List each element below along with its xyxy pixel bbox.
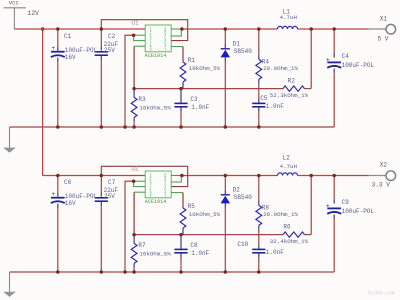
svg-text:4.7uH: 4.7uH bbox=[280, 14, 298, 21]
svg-text:+: + bbox=[326, 57, 330, 64]
svg-text:25V: 25V bbox=[104, 193, 115, 200]
svg-text:L2: L2 bbox=[283, 155, 291, 162]
svg-text:100uF-POL: 100uF-POL bbox=[342, 208, 375, 215]
svg-text:+: + bbox=[326, 203, 330, 210]
svg-text:R2: R2 bbox=[288, 78, 296, 85]
svg-text:20.0Ohm_1%: 20.0Ohm_1% bbox=[263, 65, 298, 72]
svg-text:C7: C7 bbox=[108, 179, 116, 186]
svg-text:14E3C1A8: 14E3C1A8 bbox=[150, 172, 152, 197]
svg-text:1.0nF: 1.0nF bbox=[191, 250, 209, 257]
svg-text:3.3 V: 3.3 V bbox=[372, 182, 390, 189]
svg-text:8B0C3E41: 8B0C3E41 bbox=[164, 172, 166, 197]
svg-text:10kOhm_5%: 10kOhm_5% bbox=[189, 211, 221, 218]
svg-text:R1: R1 bbox=[188, 57, 196, 64]
svg-text:R7: R7 bbox=[138, 242, 146, 249]
svg-text:+: + bbox=[51, 191, 55, 198]
svg-text:1.0nF: 1.0nF bbox=[266, 249, 284, 256]
svg-text:25V: 25V bbox=[104, 47, 115, 54]
svg-text:16V: 16V bbox=[65, 54, 76, 61]
svg-text:ACE1014: ACE1014 bbox=[145, 53, 167, 59]
svg-text:R6: R6 bbox=[283, 224, 291, 231]
svg-text:C8: C8 bbox=[190, 242, 198, 249]
svg-text:16V: 16V bbox=[65, 200, 76, 207]
svg-text:C2: C2 bbox=[108, 33, 116, 40]
svg-text:ACE1014: ACE1014 bbox=[145, 199, 167, 205]
svg-text:1.0nF: 1.0nF bbox=[191, 104, 209, 111]
svg-text:10kOhm_5%: 10kOhm_5% bbox=[139, 251, 171, 258]
svg-text:U1: U1 bbox=[131, 20, 139, 27]
svg-text:14E3C1A8: 14E3C1A8 bbox=[150, 26, 152, 51]
svg-text:SB540: SB540 bbox=[234, 194, 252, 201]
svg-text:8B0C3E41: 8B0C3E41 bbox=[164, 26, 166, 51]
svg-text:C4: C4 bbox=[342, 53, 350, 60]
svg-text:12V: 12V bbox=[27, 10, 39, 17]
svg-text:D2: D2 bbox=[233, 187, 241, 194]
svg-text:C1: C1 bbox=[64, 33, 72, 40]
svg-text:D1: D1 bbox=[233, 41, 241, 48]
svg-text:10kOhm_5%: 10kOhm_5% bbox=[189, 65, 221, 72]
svg-text:4.7uH: 4.7uH bbox=[280, 163, 298, 170]
svg-text:C3: C3 bbox=[190, 96, 198, 103]
svg-text:C9: C9 bbox=[342, 199, 350, 206]
svg-text:32.4kOhm_1%: 32.4kOhm_1% bbox=[270, 238, 309, 245]
svg-text:1.0nF: 1.0nF bbox=[266, 103, 284, 110]
svg-text:10kOhm_5%: 10kOhm_5% bbox=[139, 105, 171, 112]
svg-text:20.0Ohm_1%: 20.0Ohm_1% bbox=[263, 211, 298, 218]
svg-text:SB540: SB540 bbox=[234, 48, 252, 55]
svg-text:R3: R3 bbox=[138, 96, 146, 103]
svg-text:U2: U2 bbox=[131, 166, 139, 173]
svg-text:VCC: VCC bbox=[9, 0, 20, 7]
svg-text:C6: C6 bbox=[64, 179, 72, 186]
svg-text:X2: X2 bbox=[380, 161, 388, 168]
svg-text:hc360.com: hc360.com bbox=[368, 290, 395, 296]
svg-text:+: + bbox=[51, 45, 55, 52]
svg-text:R5: R5 bbox=[188, 203, 196, 210]
svg-text:100uF-POL: 100uF-POL bbox=[342, 62, 375, 69]
svg-text:52.3kOhm_1%: 52.3kOhm_1% bbox=[270, 92, 309, 99]
svg-text:5 V: 5 V bbox=[378, 36, 389, 43]
svg-text:C10: C10 bbox=[237, 241, 248, 248]
svg-text:C5: C5 bbox=[260, 95, 268, 102]
svg-text:X1: X1 bbox=[380, 15, 388, 22]
